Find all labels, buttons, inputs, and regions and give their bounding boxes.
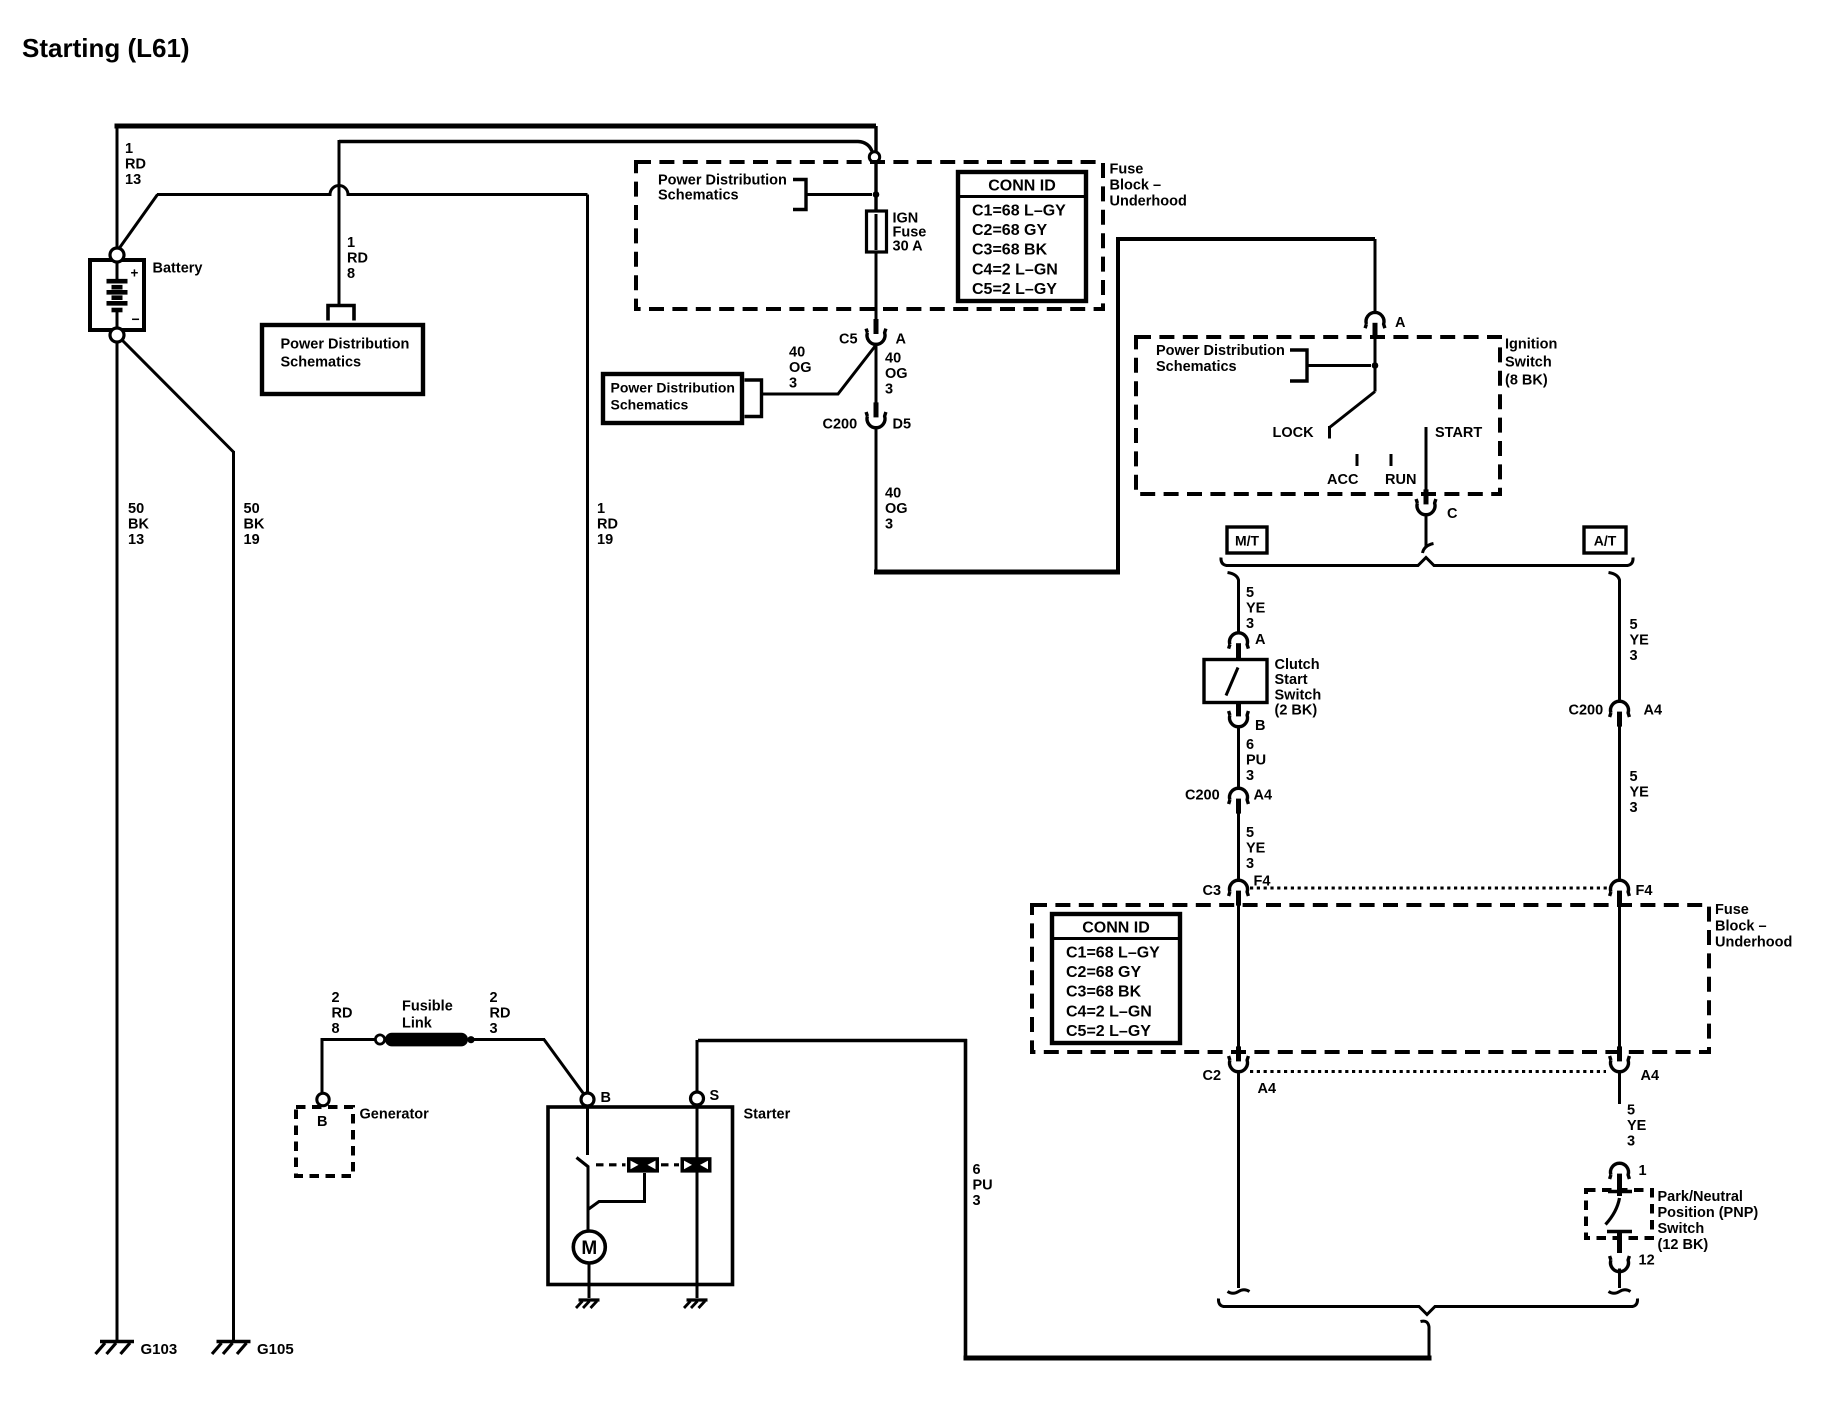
svg-text:Underhood: Underhood bbox=[1110, 194, 1187, 210]
svg-text:C2=68 GY: C2=68 GY bbox=[972, 222, 1047, 239]
svg-text:3: 3 bbox=[1246, 768, 1254, 784]
svg-text:8: 8 bbox=[332, 1021, 340, 1037]
svg-text:B: B bbox=[1255, 718, 1265, 734]
svg-text:C2=68 GY: C2=68 GY bbox=[1066, 964, 1141, 981]
svg-text:Schematics: Schematics bbox=[281, 355, 362, 371]
svg-text:S: S bbox=[710, 1088, 720, 1104]
svg-text:RD: RD bbox=[597, 516, 618, 532]
svg-text:5: 5 bbox=[1630, 769, 1638, 785]
svg-text:Start: Start bbox=[1275, 672, 1308, 688]
svg-text:12: 12 bbox=[1639, 1253, 1655, 1269]
svg-text:3: 3 bbox=[1630, 800, 1638, 816]
svg-text:A4: A4 bbox=[1258, 1081, 1277, 1097]
svg-text:LOCK: LOCK bbox=[1273, 425, 1315, 441]
svg-text:C200: C200 bbox=[823, 417, 858, 433]
svg-text:Power Distribution: Power Distribution bbox=[281, 337, 410, 353]
svg-text:3: 3 bbox=[1246, 616, 1254, 632]
svg-text:3: 3 bbox=[490, 1021, 498, 1037]
svg-text:3: 3 bbox=[789, 375, 797, 391]
svg-text:C1=68 L–GY: C1=68 L–GY bbox=[1066, 945, 1160, 962]
svg-text:A: A bbox=[896, 332, 907, 348]
svg-text:3: 3 bbox=[1630, 648, 1638, 664]
svg-text:A/T: A/T bbox=[1594, 533, 1617, 549]
svg-text:Power Distribution: Power Distribution bbox=[658, 173, 787, 189]
svg-text:F4: F4 bbox=[1254, 874, 1271, 890]
svg-text:Generator: Generator bbox=[360, 1107, 430, 1123]
svg-text:6: 6 bbox=[973, 1162, 981, 1178]
svg-text:BK: BK bbox=[244, 516, 265, 532]
svg-text:Switch: Switch bbox=[1505, 355, 1552, 371]
svg-text:50: 50 bbox=[244, 501, 260, 517]
svg-text:1: 1 bbox=[125, 141, 133, 157]
svg-text:OG: OG bbox=[789, 360, 812, 376]
svg-text:2: 2 bbox=[490, 990, 498, 1006]
svg-text:C200: C200 bbox=[1569, 703, 1604, 719]
svg-text:19: 19 bbox=[597, 532, 613, 548]
svg-text:C5=2 L–GY: C5=2 L–GY bbox=[1066, 1023, 1151, 1040]
svg-text:YE: YE bbox=[1630, 784, 1650, 800]
svg-text:40: 40 bbox=[885, 351, 901, 367]
svg-text:M: M bbox=[581, 1238, 597, 1259]
svg-text:5: 5 bbox=[1627, 1103, 1635, 1119]
svg-text:Power Distribution: Power Distribution bbox=[611, 380, 735, 396]
svg-text:C5=2 L–GY: C5=2 L–GY bbox=[972, 281, 1057, 298]
svg-text:Fusible: Fusible bbox=[402, 999, 453, 1015]
svg-text:C3=68 BK: C3=68 BK bbox=[1066, 984, 1142, 1001]
svg-text:YE: YE bbox=[1630, 632, 1650, 648]
svg-text:PU: PU bbox=[973, 1177, 993, 1193]
svg-text:5: 5 bbox=[1246, 825, 1254, 841]
svg-text:Starting (L61): Starting (L61) bbox=[22, 33, 190, 63]
svg-text:F4: F4 bbox=[1636, 883, 1653, 899]
svg-text:YE: YE bbox=[1246, 600, 1266, 616]
svg-text:M/T: M/T bbox=[1235, 533, 1260, 549]
svg-text:A4: A4 bbox=[1254, 788, 1273, 804]
svg-text:13: 13 bbox=[128, 532, 144, 548]
svg-text:30 A: 30 A bbox=[893, 239, 924, 255]
svg-text:+: + bbox=[131, 266, 139, 281]
svg-text:3: 3 bbox=[1627, 1133, 1635, 1149]
svg-text:PU: PU bbox=[1246, 752, 1266, 768]
svg-text:YE: YE bbox=[1627, 1118, 1647, 1134]
svg-text:Schematics: Schematics bbox=[611, 397, 689, 413]
svg-text:Switch: Switch bbox=[1275, 687, 1322, 703]
svg-text:Ignition: Ignition bbox=[1505, 337, 1557, 353]
svg-text:(12 BK): (12 BK) bbox=[1658, 1237, 1709, 1253]
svg-text:C5: C5 bbox=[839, 332, 858, 348]
svg-text:A4: A4 bbox=[1644, 703, 1663, 719]
svg-text:C1=68 L–GY: C1=68 L–GY bbox=[972, 203, 1066, 220]
svg-text:1: 1 bbox=[1639, 1163, 1647, 1179]
svg-text:3: 3 bbox=[1246, 856, 1254, 872]
svg-text:C3: C3 bbox=[1203, 883, 1222, 899]
svg-text:C3=68 BK: C3=68 BK bbox=[972, 242, 1048, 259]
svg-text:C2: C2 bbox=[1203, 1068, 1222, 1084]
svg-text:RD: RD bbox=[332, 1005, 353, 1021]
svg-text:50: 50 bbox=[128, 501, 144, 517]
svg-text:6: 6 bbox=[1246, 737, 1254, 753]
svg-text:START: START bbox=[1435, 425, 1482, 441]
svg-text:19: 19 bbox=[244, 532, 260, 548]
svg-text:Position (PNP): Position (PNP) bbox=[1658, 1205, 1759, 1221]
svg-text:RD: RD bbox=[125, 156, 146, 172]
svg-text:Schematics: Schematics bbox=[658, 188, 739, 204]
svg-text:ACC: ACC bbox=[1327, 472, 1359, 488]
svg-text:CONN ID: CONN ID bbox=[988, 178, 1056, 195]
svg-text:5: 5 bbox=[1630, 617, 1638, 633]
svg-text:Power Distribution: Power Distribution bbox=[1156, 343, 1285, 359]
svg-text:CONN ID: CONN ID bbox=[1082, 920, 1150, 937]
svg-text:Park/Neutral: Park/Neutral bbox=[1658, 1189, 1743, 1205]
svg-text:G103: G103 bbox=[141, 1341, 178, 1358]
svg-text:13: 13 bbox=[125, 172, 141, 188]
svg-text:RD: RD bbox=[347, 250, 368, 266]
svg-text:1: 1 bbox=[597, 501, 605, 517]
svg-text:G105: G105 bbox=[257, 1341, 294, 1358]
svg-text:3: 3 bbox=[885, 516, 893, 532]
svg-text:(2 BK): (2 BK) bbox=[1275, 703, 1318, 719]
svg-text:OG: OG bbox=[885, 501, 908, 517]
svg-text:C: C bbox=[1447, 506, 1458, 522]
svg-text:8: 8 bbox=[347, 266, 355, 282]
svg-text:B: B bbox=[317, 1114, 327, 1130]
svg-text:C200: C200 bbox=[1185, 788, 1220, 804]
svg-text:Schematics: Schematics bbox=[1156, 359, 1237, 375]
svg-text:B: B bbox=[601, 1090, 611, 1106]
svg-text:40: 40 bbox=[789, 345, 805, 361]
svg-text:Block –: Block – bbox=[1110, 178, 1162, 194]
svg-text:1: 1 bbox=[347, 235, 355, 251]
svg-text:Underhood: Underhood bbox=[1715, 935, 1792, 951]
svg-text:2: 2 bbox=[332, 990, 340, 1006]
svg-text:Fuse: Fuse bbox=[1110, 162, 1144, 178]
svg-text:−: − bbox=[132, 311, 140, 327]
svg-text:A4: A4 bbox=[1641, 1068, 1660, 1084]
svg-text:Fuse: Fuse bbox=[1715, 902, 1749, 918]
svg-text:A: A bbox=[1395, 315, 1406, 331]
svg-text:Clutch: Clutch bbox=[1275, 657, 1320, 673]
svg-text:5: 5 bbox=[1246, 585, 1254, 601]
svg-text:D5: D5 bbox=[893, 417, 912, 433]
svg-text:3: 3 bbox=[885, 381, 893, 397]
svg-text:YE: YE bbox=[1246, 840, 1266, 856]
svg-text:RUN: RUN bbox=[1385, 472, 1416, 488]
svg-text:Switch: Switch bbox=[1658, 1221, 1705, 1237]
svg-text:Link: Link bbox=[402, 1016, 433, 1032]
svg-text:40: 40 bbox=[885, 486, 901, 502]
svg-text:Battery: Battery bbox=[153, 261, 203, 277]
svg-text:BK: BK bbox=[128, 516, 149, 532]
svg-text:3: 3 bbox=[973, 1193, 981, 1209]
svg-text:Starter: Starter bbox=[744, 1107, 791, 1123]
svg-text:A: A bbox=[1255, 632, 1266, 648]
svg-text:OG: OG bbox=[885, 366, 908, 382]
svg-text:RD: RD bbox=[490, 1005, 511, 1021]
svg-text:Block –: Block – bbox=[1715, 918, 1767, 934]
svg-text:(8 BK): (8 BK) bbox=[1505, 373, 1548, 389]
svg-text:C4=2 L–GN: C4=2 L–GN bbox=[972, 261, 1058, 278]
svg-text:C4=2 L–GN: C4=2 L–GN bbox=[1066, 1003, 1152, 1020]
